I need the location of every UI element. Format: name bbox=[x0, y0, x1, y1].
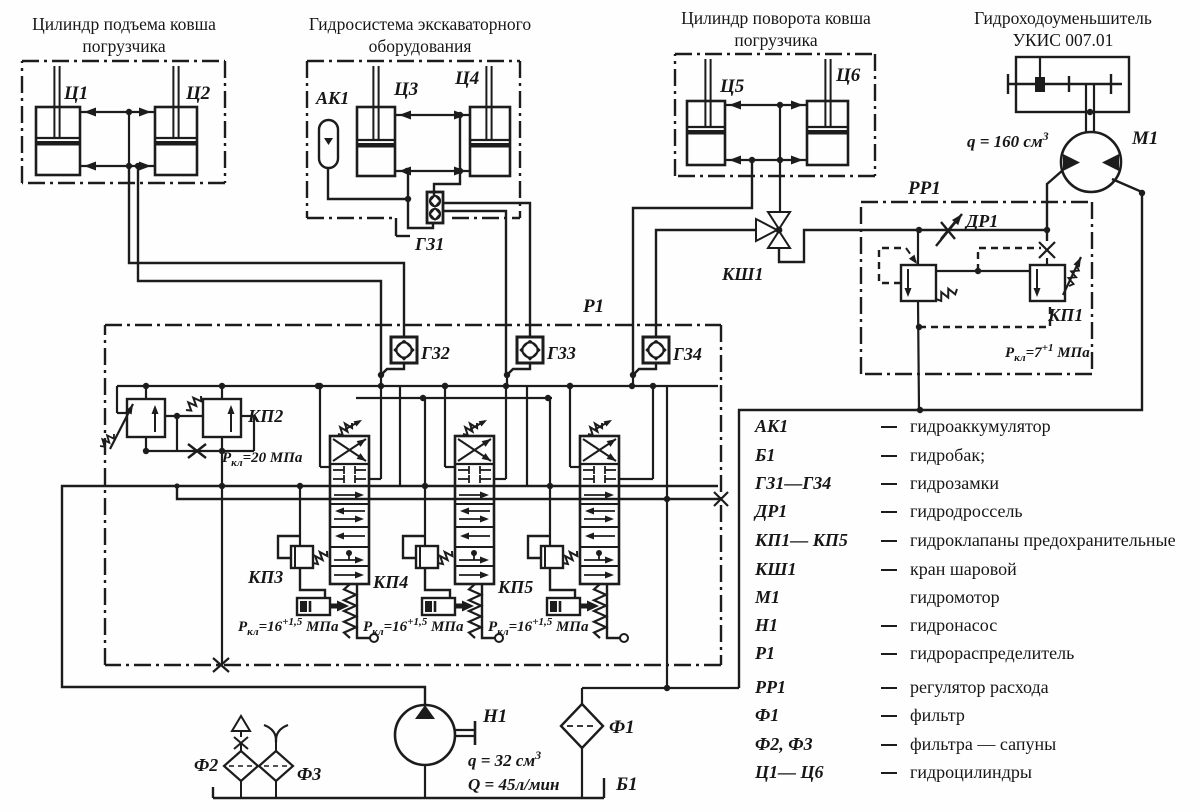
svg-text:Гидроходоуменьшитель: Гидроходоуменьшитель bbox=[974, 8, 1152, 28]
relief valve КП5 bbox=[541, 546, 563, 568]
wire KSh1 bottom jog to RR1 bbox=[779, 230, 1047, 262]
wire companion right 2 g3 bbox=[666, 386, 668, 500]
junction bbox=[1139, 190, 1145, 196]
relief valve KP1 bbox=[1030, 265, 1065, 301]
junction bbox=[664, 685, 670, 691]
spring КП3 bbox=[313, 551, 327, 564]
drain КП4 to pilot box bbox=[425, 568, 450, 598]
svg-text:гидроцилиндры: гидроцилиндры bbox=[910, 762, 1032, 782]
spring KP2 bbox=[186, 396, 201, 411]
drain КП5 to pilot box bbox=[550, 568, 575, 598]
wire GZ1 to GZ3 bbox=[443, 203, 530, 337]
wire motor right port return bbox=[739, 179, 1142, 688]
wire companion right 2 g2 bbox=[526, 386, 528, 486]
svg-text:УКИС 007.01: УКИС 007.01 bbox=[1013, 30, 1114, 50]
drain port circle valve 3 bbox=[620, 634, 628, 642]
svg-text:Н1: Н1 bbox=[482, 706, 507, 727]
wire flow valve to KP1 bbox=[936, 270, 1030, 272]
svg-text:Ф2: Ф2 bbox=[194, 755, 218, 775]
pilot dashed loop of flow valve bbox=[879, 248, 917, 283]
svg-text:гидроклапаны предохранительные: гидроклапаны предохранительные bbox=[910, 530, 1176, 550]
svg-text:Ц4: Ц4 bbox=[454, 68, 479, 89]
wire KSh1 left to GZ4 bbox=[656, 230, 756, 337]
check-lock GZ3 bbox=[517, 337, 543, 363]
wire node to GZ1 bottom bbox=[408, 171, 433, 228]
wire flow valve top bbox=[917, 230, 919, 265]
junction drain line bbox=[664, 496, 670, 502]
wire Ts1-Ts2 rod-side line bbox=[80, 111, 155, 113]
plug cross on P1 border right bbox=[714, 492, 728, 506]
dashed drain link KP1 bbox=[919, 302, 1050, 327]
svg-text:q = 32 см3: q = 32 см3 bbox=[468, 748, 541, 770]
wire Ts1 piston line to P1 node bbox=[138, 166, 381, 375]
wire Ts5-Ts6 to P1 drop bbox=[633, 160, 752, 375]
wire F1 to tank bbox=[581, 748, 583, 798]
svg-text:ГЗ1: ГЗ1 bbox=[414, 234, 444, 254]
enclosure dash-dot box RR1 bbox=[861, 201, 1092, 203]
wire AK1 to node bbox=[328, 168, 406, 199]
svg-text:фильтра — сапуны: фильтра — сапуны bbox=[910, 734, 1056, 754]
junction bbox=[143, 383, 149, 389]
plug cross on P1 border bottom bbox=[213, 658, 229, 672]
pilot loop КП5 bbox=[528, 536, 550, 558]
drain line valve 1 bbox=[357, 584, 370, 638]
svg-text:КП4: КП4 bbox=[372, 572, 408, 592]
drain КП3 to pilot box bbox=[300, 568, 325, 598]
junction bbox=[916, 227, 922, 233]
junction bus A bbox=[315, 383, 321, 389]
wire pump supply to bus C bbox=[62, 486, 718, 705]
junction bbox=[504, 372, 510, 378]
svg-text:гидромотор: гидромотор bbox=[910, 587, 1000, 607]
junction bbox=[317, 383, 323, 389]
directional valve section 1 of P1 bbox=[330, 436, 369, 584]
return spring valve 2 bbox=[469, 584, 481, 638]
pilot line КП4 bbox=[424, 398, 426, 546]
check-lock jog GZ4 bbox=[633, 363, 656, 375]
svg-text:Цилиндр поворота ковша: Цилиндр поворота ковша bbox=[681, 8, 871, 28]
svg-text:КП1: КП1 bbox=[1047, 305, 1083, 325]
svg-text:Ц1: Ц1 bbox=[63, 83, 88, 104]
svg-text:КП3: КП3 bbox=[247, 567, 283, 587]
filter F1 bbox=[561, 704, 603, 748]
pilot line КП5 bbox=[549, 398, 551, 546]
pilot actuator box valve 3 bbox=[547, 598, 580, 615]
wire cylinder line to GZ1 top bbox=[434, 115, 460, 195]
svg-text:гидрораспределитель: гидрораспределитель bbox=[910, 643, 1074, 663]
wire companion left g3 bbox=[569, 386, 571, 467]
check-lock jog GZ3 bbox=[507, 363, 530, 375]
svg-text:ДР1: ДР1 bbox=[964, 211, 998, 231]
directional valve section 2 of P1 bbox=[455, 436, 494, 584]
svg-text:КП5: КП5 bbox=[497, 577, 533, 597]
junction bbox=[378, 372, 384, 378]
check-lock GZ1 bbox=[427, 192, 443, 223]
pilot actuator box valve 1 bbox=[297, 598, 330, 615]
junction bbox=[405, 196, 411, 202]
dashed pilot to cross valve bbox=[978, 248, 1041, 271]
relief valve KP2 left element bbox=[127, 399, 165, 437]
cylinder Ts6 bbox=[807, 59, 848, 165]
wire Ts3-Ts4 rod-side line bbox=[395, 114, 470, 116]
svg-text:Р1: Р1 bbox=[754, 643, 775, 663]
relief valve КП3 bbox=[291, 546, 313, 568]
svg-text:погрузчика: погрузчика bbox=[82, 36, 166, 56]
adjust arrow KP2 bbox=[100, 404, 133, 449]
svg-text:Ф1: Ф1 bbox=[755, 705, 779, 725]
svg-text:КШ1: КШ1 bbox=[754, 559, 796, 579]
thick link to spring valve 1 bbox=[330, 601, 349, 612]
wire Ts3-Ts4 piston-side line bbox=[395, 170, 470, 172]
svg-text:Q = 45л/мин: Q = 45л/мин bbox=[468, 775, 559, 794]
pilot line КП3 bbox=[299, 486, 301, 546]
thick link to spring valve 3 bbox=[580, 601, 599, 612]
check-lock jog GZ2 bbox=[381, 363, 404, 375]
wire KP2 drain to plug bbox=[221, 451, 223, 665]
accumulator AK1 bbox=[319, 120, 338, 168]
svg-text:КШ1: КШ1 bbox=[721, 264, 763, 284]
svg-text:РР1: РР1 bbox=[907, 178, 941, 199]
svg-text:АК1: АК1 bbox=[315, 88, 349, 108]
svg-text:РР1: РР1 bbox=[754, 677, 786, 697]
junction bbox=[547, 483, 553, 489]
wire motor left port down bbox=[1047, 170, 1063, 241]
svg-text:Ц5: Ц5 bbox=[719, 76, 745, 97]
pump N1 bbox=[395, 705, 475, 765]
svg-text:Б1: Б1 bbox=[754, 445, 775, 465]
wire F2 drop bbox=[240, 781, 242, 798]
wire GZ1 to P1 node bbox=[443, 211, 506, 375]
directional valve section 3 of P1 bbox=[580, 436, 619, 584]
svg-text:М1: М1 bbox=[1131, 128, 1158, 149]
svg-text:ДР1: ДР1 bbox=[753, 501, 787, 521]
return spring valve 1 bbox=[344, 584, 356, 638]
spring КП4 bbox=[438, 551, 452, 564]
spring top of valve 2 bbox=[463, 420, 487, 435]
adjust arrow of KP1 bbox=[1063, 257, 1081, 295]
wire center drop to ball valve bbox=[779, 105, 781, 212]
wire Ts1 rod line to GZ2 bbox=[129, 166, 404, 337]
ball valve KSh1 bbox=[756, 212, 790, 248]
cylinder Ts5 bbox=[687, 59, 725, 165]
enclosure dash-dot box Ts5-Ts6 bbox=[675, 53, 875, 55]
thick link to spring valve 2 bbox=[455, 601, 474, 612]
svg-text:М1: М1 bbox=[754, 587, 780, 607]
wire drain to filter line bbox=[666, 499, 668, 688]
svg-text:Ц6: Ц6 bbox=[835, 65, 861, 86]
check-lock GZ4 bbox=[643, 337, 669, 363]
wire companion left g1 bbox=[319, 386, 321, 467]
svg-text:Ц2: Ц2 bbox=[185, 83, 211, 104]
svg-text:гидрозамки: гидрозамки bbox=[910, 473, 999, 493]
svg-text:гидробак;: гидробак; bbox=[910, 445, 985, 465]
spring top of valve 1 bbox=[338, 420, 362, 435]
wire F3 drop bbox=[275, 781, 277, 798]
junction bbox=[975, 268, 981, 274]
enclosure dash-dot box hydrosystem bbox=[307, 60, 520, 62]
svg-text:гидроаккумулятор: гидроаккумулятор bbox=[910, 416, 1051, 436]
junction bbox=[422, 483, 428, 489]
wire bus B bbox=[356, 397, 552, 399]
wire pump suction bbox=[424, 765, 426, 798]
breather F2 bbox=[224, 716, 258, 781]
wire cross to KP1 bbox=[1046, 258, 1048, 265]
shaft motor to gearbox bbox=[1086, 84, 1094, 133]
svg-text:Ц1— Ц6: Ц1— Ц6 bbox=[754, 762, 824, 782]
svg-text:Р1: Р1 bbox=[582, 296, 604, 317]
wire return line to F1 bbox=[582, 687, 739, 689]
wire Ts5-Ts6 rod-side line bbox=[725, 104, 807, 106]
svg-text:Г34: Г34 bbox=[672, 344, 702, 364]
pilot loop КП4 bbox=[403, 536, 425, 558]
wire center drop Ts1-Ts2 bbox=[128, 112, 130, 166]
svg-text:Н1: Н1 bbox=[754, 615, 778, 635]
cylinder Ts3 bbox=[357, 66, 395, 176]
junction bbox=[404, 168, 410, 174]
drain line valve 2 bbox=[482, 584, 495, 638]
throttle cross KP2 bbox=[188, 444, 206, 458]
check-lock GZ2 bbox=[391, 337, 417, 363]
wire F1 riser bbox=[581, 688, 583, 704]
wire node to bus A g2 bbox=[506, 375, 508, 386]
svg-text:Б1: Б1 bbox=[615, 774, 638, 795]
svg-text:гидродроссель: гидродроссель bbox=[910, 501, 1023, 521]
wire node to bus A g1 bbox=[380, 375, 382, 386]
svg-text:КП1— КП5: КП1— КП5 bbox=[754, 530, 848, 550]
cylinder Ts4 bbox=[470, 66, 510, 176]
wire drain branch with plug bbox=[177, 486, 721, 499]
junction bbox=[630, 372, 636, 378]
return spring valve 3 bbox=[594, 584, 606, 638]
spring top of valve 3 bbox=[588, 420, 612, 435]
svg-text:Ф3: Ф3 bbox=[297, 764, 321, 784]
flow control valve in RR1 bbox=[901, 265, 936, 301]
junction bbox=[442, 383, 448, 389]
cylinder Ts2 bbox=[155, 66, 197, 175]
drain port circle valve 1 bbox=[370, 634, 378, 642]
wire companion right 2 g1 bbox=[399, 386, 401, 486]
svg-text:кран шаровой: кран шаровой bbox=[910, 559, 1017, 579]
svg-text:Гидросистема экскаваторного: Гидросистема экскаваторного bbox=[309, 14, 532, 34]
tank B1 bbox=[213, 778, 604, 798]
svg-text:фильтр: фильтр bbox=[910, 705, 965, 725]
svg-text:погрузчика: погрузчика bbox=[734, 30, 818, 50]
junction bbox=[777, 102, 783, 108]
svg-text:Г32: Г32 bbox=[420, 343, 450, 363]
wire companion left g2 bbox=[444, 386, 446, 467]
drain line valve 3 bbox=[607, 584, 620, 638]
spring КП5 bbox=[563, 551, 577, 564]
wire companion right 1 g2 bbox=[505, 386, 507, 479]
svg-text:Ф2, Ф3: Ф2, Ф3 bbox=[755, 734, 813, 754]
throttle DR1 bbox=[936, 214, 962, 246]
svg-text:Г33: Г33 bbox=[546, 343, 576, 363]
gear reducer box bbox=[1008, 57, 1129, 112]
pilot actuator box valve 2 bbox=[422, 598, 455, 615]
relief valve KP2 right element bbox=[203, 399, 241, 437]
legend bbox=[753, 416, 1176, 782]
enclosure dash-dot box Ts1-Ts2 bbox=[22, 60, 225, 62]
junction bbox=[297, 483, 303, 489]
wire Ts5-Ts6 piston-side line bbox=[725, 159, 807, 161]
cylinder Ts1 bbox=[36, 66, 80, 175]
enclosure dash-dot box P1 bbox=[105, 324, 721, 326]
drain port circle valve 2 bbox=[495, 634, 503, 642]
svg-text:гидронасос: гидронасос bbox=[910, 615, 997, 635]
svg-text:q = 160 см3: q = 160 см3 bbox=[967, 129, 1049, 151]
svg-text:Цилиндр подъема ковша: Цилиндр подъема ковша bbox=[32, 14, 216, 34]
wire KP2 plumbing bbox=[117, 386, 254, 451]
junction bbox=[126, 109, 132, 115]
svg-text:регулятор расхода: регулятор расхода bbox=[910, 677, 1049, 697]
junction bbox=[916, 324, 922, 330]
wire pressure bus A bbox=[117, 385, 718, 387]
plugged cross on motor line bbox=[1039, 242, 1055, 258]
svg-text:оборудования: оборудования bbox=[369, 36, 472, 56]
wire Ts1-Ts2 piston-side line bbox=[80, 165, 155, 167]
svg-text:АК1: АК1 bbox=[754, 416, 788, 436]
junction bbox=[567, 383, 573, 389]
wire node to bus A g3 bbox=[632, 375, 634, 386]
wire companion right 1 g1 bbox=[380, 386, 382, 479]
svg-text:ГЗ1—Г34: ГЗ1—Г34 bbox=[754, 473, 831, 493]
wire flow valve bottom drain bbox=[918, 301, 919, 410]
hydraulic motor M1 bbox=[1061, 132, 1121, 192]
relief valve КП4 bbox=[416, 546, 438, 568]
svg-text:Ф1: Ф1 bbox=[609, 717, 635, 738]
junction bbox=[174, 483, 179, 488]
spring of flow valve bbox=[936, 289, 957, 301]
wire companion right 1 g3 bbox=[652, 386, 654, 479]
breather F3 bbox=[259, 725, 293, 781]
pilot loop КП3 bbox=[278, 536, 300, 558]
svg-text:Ц3: Ц3 bbox=[393, 79, 418, 100]
